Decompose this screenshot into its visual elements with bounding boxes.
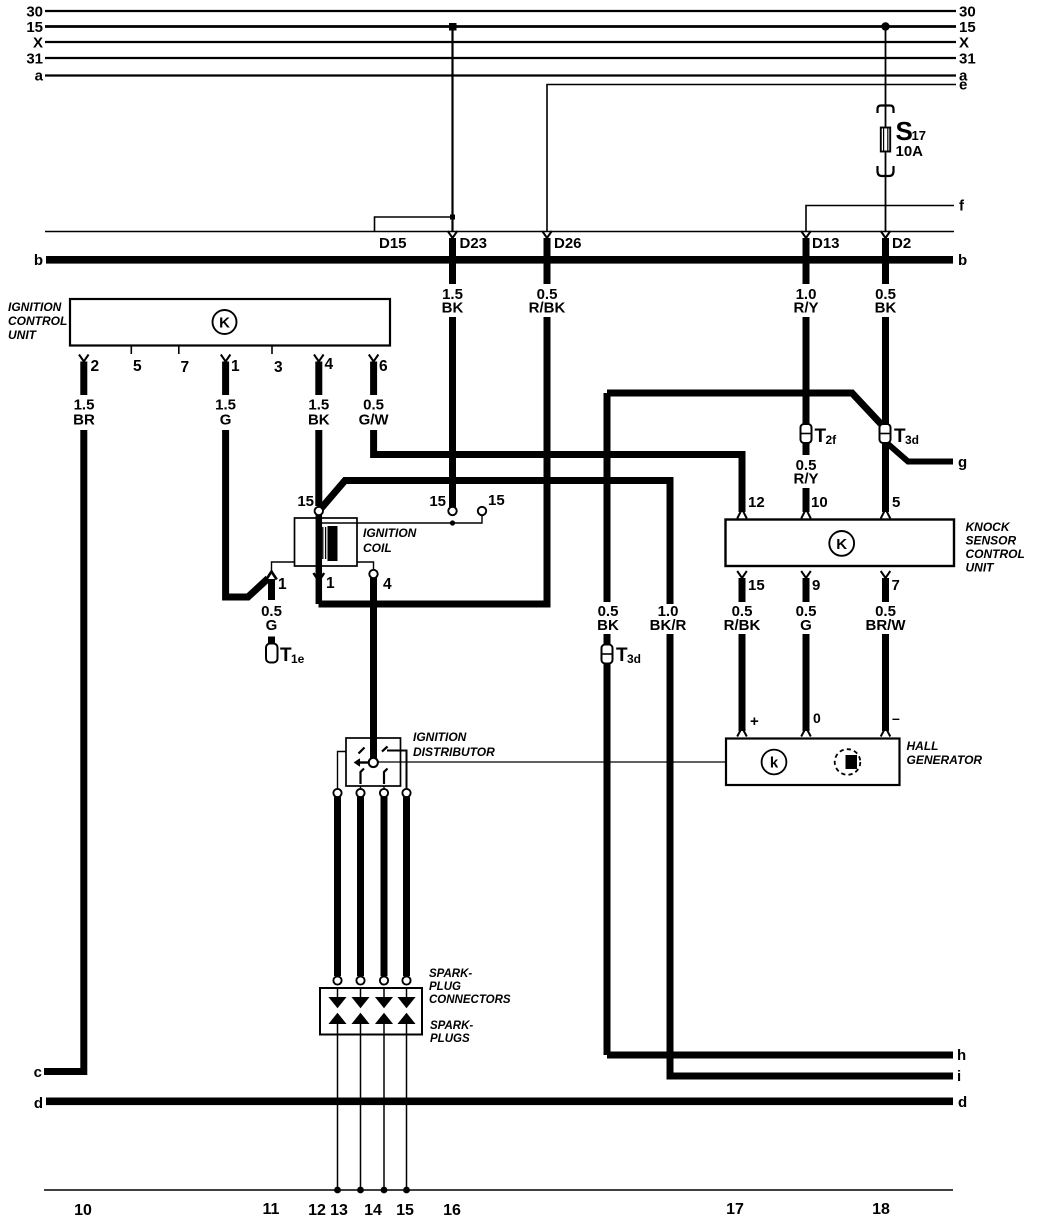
wire 1.5 G down to coil terminal 1 left (226, 430, 268, 597)
spark plug arrow 4 (399, 1014, 415, 1024)
track junction dot 2 (357, 1187, 364, 1194)
connector D2 arrow (881, 231, 891, 238)
svg-text:SPARK-: SPARK- (429, 968, 472, 980)
wire 1.5 BR stub from pin 2 (80, 362, 87, 396)
wire 0.5 R/BK from D26 segment (544, 238, 551, 284)
wire 0.5 G to hall generator 0 (803, 634, 810, 731)
svg-text:SPARK-: SPARK- (430, 1020, 473, 1032)
wire 0.5 BK to connector T3d (882, 317, 889, 443)
svg-text:6: 6 (379, 358, 388, 375)
svg-text:PLUG: PLUG (429, 981, 461, 993)
node ignition coil terminal 15 circle (315, 507, 323, 515)
control unit pin 5 tick (130, 346, 132, 355)
svg-text:b: b (34, 252, 43, 269)
wire from fuse S17 down to connector D2 (885, 152, 887, 232)
svg-text:BK: BK (442, 300, 464, 317)
spark plug lead wire 2 (357, 797, 364, 976)
ignition control unit symbol K (213, 310, 237, 334)
knock unit pin 9 arrow (801, 571, 811, 578)
net a rail (45, 74, 956, 76)
knock unit pin 7 arrow (881, 571, 891, 578)
svg-text:CONTROL: CONTROL (966, 547, 1025, 561)
svg-text:16: 16 (443, 1202, 461, 1219)
hall generator box G1 (726, 739, 900, 786)
svg-text:R/BK: R/BK (724, 617, 761, 634)
spark plug lead wire 1 (334, 797, 341, 976)
svg-text:5: 5 (892, 494, 900, 511)
spark plug lead wire 4 (403, 797, 410, 976)
junction square at D15 branch (450, 215, 455, 220)
control unit pin 3 tick (271, 346, 273, 355)
control unit pin 2 arrow (79, 355, 89, 362)
distributor cap contact upper-right (382, 747, 388, 752)
svg-text:K: K (219, 315, 230, 332)
svg-text:15: 15 (297, 493, 314, 510)
thin pickup line from coil to terminal 15 circles (319, 515, 482, 523)
spark lead terminal circle 4 (402, 789, 410, 797)
svg-text:d: d (958, 1094, 967, 1111)
wire BK/R down to net i (670, 634, 953, 1076)
connector T1e symbol (268, 637, 275, 644)
svg-text:D2: D2 (892, 235, 911, 252)
svg-text:12: 12 (748, 494, 765, 511)
svg-text:h: h (957, 1047, 966, 1064)
spark lead terminal circle 1 (333, 789, 341, 797)
fuse S17 bottom terminal hook (878, 166, 894, 176)
svg-text:G: G (220, 412, 232, 429)
control unit pin 4 arrow (314, 355, 324, 362)
svg-text:IGNITION: IGNITION (413, 730, 467, 744)
svg-text:30: 30 (26, 4, 43, 21)
svg-text:G/W: G/W (359, 412, 390, 429)
svg-text:IGNITION: IGNITION (363, 526, 417, 540)
ignition coil box (295, 518, 358, 566)
knock unit pin 10 arrow (801, 509, 811, 519)
node terminal 15 circle right (478, 507, 486, 515)
svg-text:4: 4 (383, 576, 392, 593)
net X supply rail (45, 41, 956, 43)
svg-text:UNIT: UNIT (8, 328, 38, 342)
svg-text:COIL: COIL (363, 541, 392, 555)
wire 0.5 G stub below knock pin 9 (803, 578, 810, 602)
hall generator pin 0 arrow (801, 728, 811, 737)
svg-text:BK: BK (597, 617, 619, 634)
spark plug wire 2 to track (360, 1035, 362, 1191)
wire 1.5 G stub from pin 1 (222, 362, 229, 396)
knock unit pin 12 arrow (737, 509, 747, 519)
svg-text:1: 1 (231, 358, 240, 375)
spark plug wire 3 to track (383, 1035, 385, 1191)
hall generator pin + arrow (737, 728, 747, 737)
net e rail (547, 85, 956, 232)
wire from coil terminal 15 up-right to BK/R branch (321, 481, 670, 605)
svg-text:c: c (34, 1064, 42, 1081)
net 30 supply rail (45, 10, 956, 12)
distributor cap contact upper-left (359, 748, 365, 754)
svg-text:15: 15 (396, 1202, 414, 1219)
distributor output wire to spark lead 1 (338, 752, 347, 790)
svg-text:13: 13 (330, 1202, 348, 1219)
thin connector-row rail (45, 231, 954, 233)
svg-text:SENSOR: SENSOR (966, 534, 1017, 548)
svg-text:10: 10 (74, 1202, 92, 1219)
svg-text:b: b (958, 252, 967, 269)
connector T2f symbol (801, 424, 812, 443)
knock sensor unit symbol K (829, 531, 854, 556)
spark plug wire 4 to track (406, 1035, 408, 1191)
connector T3d lower symbol (602, 645, 613, 664)
spark lead terminal circle 3 (380, 789, 388, 797)
svg-text:3: 3 (274, 359, 283, 376)
spark lead terminal circle 2 (356, 789, 364, 797)
wire 0.5 R/BK down and left to coil terminal 1 (319, 317, 548, 604)
control unit pin 7 tick (178, 346, 180, 355)
svg-text:a: a (35, 68, 44, 85)
fuse S17 top terminal hook (878, 106, 894, 114)
svg-text:1: 1 (278, 576, 287, 593)
bottom track scale line (44, 1189, 953, 1191)
svg-text:4: 4 (325, 356, 334, 373)
svg-text:g: g (958, 454, 967, 471)
distributor rotor centre circle (369, 758, 378, 767)
svg-text:e: e (959, 77, 967, 94)
wire 1.5 BK from D23 segment (449, 238, 456, 284)
svg-text:G: G (266, 617, 278, 634)
net 31 supply rail (45, 57, 956, 59)
svg-text:X: X (33, 35, 43, 52)
distributor output wire to spark lead 3 (383, 786, 385, 789)
wire from T3d down to knock sensor pin 5 (882, 443, 889, 512)
hall generator sender symbol (762, 750, 787, 775)
spark plug connector arrow 2 (360, 988, 362, 998)
svg-text:12: 12 (308, 1202, 326, 1219)
spark plug arrow 2 (353, 1014, 369, 1024)
spark plug wire 1 to track (337, 1035, 339, 1191)
svg-text:CONNECTORS: CONNECTORS (429, 994, 511, 1006)
hall generator rotor symbol dashed circle (835, 749, 861, 775)
hall generator pin - arrow (881, 728, 891, 737)
node D15 branch wire (375, 217, 453, 232)
wire 0.5 R/BK to hall generator + (739, 634, 746, 731)
svg-text:CONTROL: CONTROL (8, 314, 67, 328)
wire 1.5 BR down to net c (44, 430, 84, 1072)
connector D23 arrow (448, 231, 458, 238)
wire 0.5 BK from D2 segment (882, 238, 889, 284)
coil terminal 4 circle (357, 562, 374, 570)
wire 0.5 BK vertical from branch corner down to T3d (604, 393, 611, 602)
svg-text:R/BK: R/BK (529, 300, 566, 317)
node terminal 15 circle on D23 wire (448, 507, 456, 515)
wire 1.5 BK down to coil terminal 15 (315, 430, 322, 506)
wire 0.5 G stub down to T1e (268, 579, 275, 600)
ignition control unit box U1 (70, 299, 390, 346)
ignition coil winding (322, 527, 324, 559)
wire from net 15 down to connector D23 (451, 27, 453, 232)
ignition coil primary wire through box (316, 515, 323, 604)
svg-text:0: 0 (813, 710, 821, 726)
svg-text:15: 15 (26, 19, 43, 36)
svg-text:15: 15 (488, 492, 505, 509)
svg-text:11: 11 (263, 1201, 280, 1218)
spark plug connector arrow 4 (406, 988, 408, 998)
svg-text:2f: 2f (826, 433, 838, 447)
svg-text:G: G (800, 617, 812, 634)
control unit pin 1 arrow (221, 355, 231, 362)
connector T3d symbol (880, 424, 891, 443)
wire from net 15 down to fuse S17 (885, 27, 887, 129)
svg-text:KNOCK: KNOCK (966, 520, 1011, 534)
svg-text:2: 2 (91, 358, 100, 375)
svg-text:3d: 3d (905, 433, 919, 447)
wire from coil terminal 4 to distributor (370, 578, 377, 759)
distributor output wire to spark lead 4 (387, 751, 407, 790)
svg-text:IGNITION: IGNITION (8, 300, 62, 314)
knock unit pin 15 arrow (737, 571, 747, 578)
wire branch horizontal to T3d (607, 393, 881, 424)
svg-text:UNIT: UNIT (966, 561, 996, 575)
svg-text:DISTRIBUTOR: DISTRIBUTOR (413, 745, 495, 759)
wire 0.5 R/Y to knock sensor unit pin 10 (803, 488, 810, 512)
control unit pin 6 arrow (369, 355, 379, 362)
track junction dot 4 (403, 1187, 410, 1194)
wire 1.5 BK continues to ignition coil terminal 15 (449, 317, 456, 507)
spark plug arrow 1 (330, 1014, 346, 1024)
svg-text:1e: 1e (291, 652, 305, 666)
net g branch wire from T3d (888, 444, 953, 462)
svg-text:d: d (34, 1095, 43, 1112)
coil terminal 1 mid arrow (313, 573, 324, 581)
distributor output wire to spark lead 2 (360, 786, 362, 789)
wire 1.5 BK stub from pin 4 (315, 362, 322, 396)
spark plug connector arrow 3 (383, 988, 385, 998)
svg-text:5: 5 (133, 358, 142, 375)
svg-text:HALL: HALL (907, 739, 939, 753)
ignition distributor box (346, 738, 401, 786)
svg-text:17: 17 (726, 1201, 744, 1218)
svg-text:14: 14 (364, 1202, 382, 1219)
track junction dot 3 (381, 1187, 388, 1194)
wire 0.5 G/W down then right to knock pin 12 (374, 430, 742, 512)
wire 1.0 R/Y from D13 segment (803, 238, 810, 284)
coil terminal 1 arrow (to control unit) (272, 562, 295, 571)
svg-text:S: S (896, 116, 913, 146)
svg-text:+: + (750, 713, 759, 730)
svg-text:–: – (892, 710, 900, 726)
net 15 supply rail (45, 25, 956, 28)
spark lead connector circle 2 (356, 976, 364, 984)
svg-text:15: 15 (748, 577, 765, 594)
svg-text:15: 15 (959, 19, 976, 36)
svg-text:BR: BR (73, 412, 95, 429)
svg-text:31: 31 (26, 51, 43, 68)
svg-text:30: 30 (959, 4, 976, 21)
knock sensor control unit box U2 (726, 520, 955, 567)
svg-text:D23: D23 (460, 235, 488, 252)
svg-text:7: 7 (181, 359, 190, 376)
track junction dot 1 (334, 1187, 341, 1194)
wire 0.5 R/BK stub below knock pin 15 (739, 578, 746, 602)
wire 0.5 BR/W stub below knock pin 7 (882, 578, 889, 602)
thin line from distributor rotor to hall generator (378, 761, 726, 763)
svg-text:GENERATOR: GENERATOR (907, 753, 983, 767)
net d bus bar (46, 1098, 953, 1106)
junction dot on pickup line (450, 520, 455, 525)
spark plug lead wire 3 (381, 797, 388, 976)
wire 0.5 BR/W to hall generator - (882, 634, 889, 731)
svg-text:D15: D15 (379, 235, 407, 252)
spark plug connector arrow 1 (337, 988, 339, 998)
distributor rotor arm (360, 761, 370, 763)
net b bus bar (46, 256, 953, 264)
svg-text:K: K (836, 536, 847, 553)
svg-text:7: 7 (892, 577, 900, 594)
junction square on net 15 at D23 riser (449, 23, 457, 31)
svg-text:PLUGS: PLUGS (430, 1033, 470, 1045)
spark lead connector circle 3 (380, 976, 388, 984)
wire 0.5 G/W stub from pin 6 (370, 362, 377, 396)
svg-text:BK/R: BK/R (650, 617, 687, 634)
spark lead connector circle 4 (402, 976, 410, 984)
svg-text:BK: BK (875, 300, 897, 317)
svg-text:1: 1 (326, 575, 335, 592)
svg-text:9: 9 (812, 577, 820, 594)
svg-text:3d: 3d (627, 652, 641, 666)
svg-text:i: i (957, 1068, 961, 1085)
svg-text:17: 17 (912, 128, 926, 143)
wire 0.5 BK to connector T3d lower (604, 634, 611, 1055)
spark plug arrow 3 (376, 1014, 392, 1024)
svg-text:15: 15 (429, 493, 446, 510)
svg-text:31: 31 (959, 51, 976, 68)
fuse S17 body (881, 128, 890, 152)
svg-text:X: X (959, 35, 969, 52)
connector D13 arrow (801, 231, 811, 238)
svg-text:R/Y: R/Y (793, 471, 818, 488)
svg-text:k: k (770, 755, 779, 772)
svg-text:BK: BK (308, 412, 330, 429)
svg-text:D26: D26 (554, 235, 582, 252)
wire 1.0 R/Y to connector T2f (803, 317, 810, 455)
spark plug connectors box (320, 988, 422, 1035)
svg-text:10A: 10A (896, 143, 924, 160)
svg-text:10: 10 (811, 494, 828, 511)
junction dot on net 15 at fuse wire (881, 22, 889, 30)
svg-text:18: 18 (872, 1201, 890, 1218)
svg-text:R/Y: R/Y (793, 300, 818, 317)
svg-text:D13: D13 (812, 235, 840, 252)
knock unit pin 5 arrow (881, 509, 891, 519)
distributor cap contact lower-left (361, 769, 365, 785)
spark lead connector circle 1 (333, 976, 341, 984)
wire 0.5 BK to net h (607, 1052, 953, 1059)
net f rail (806, 206, 954, 232)
svg-text:BR/W: BR/W (866, 617, 907, 634)
connector D26 arrow (542, 231, 552, 238)
distributor cap contact lower-right (384, 769, 388, 785)
